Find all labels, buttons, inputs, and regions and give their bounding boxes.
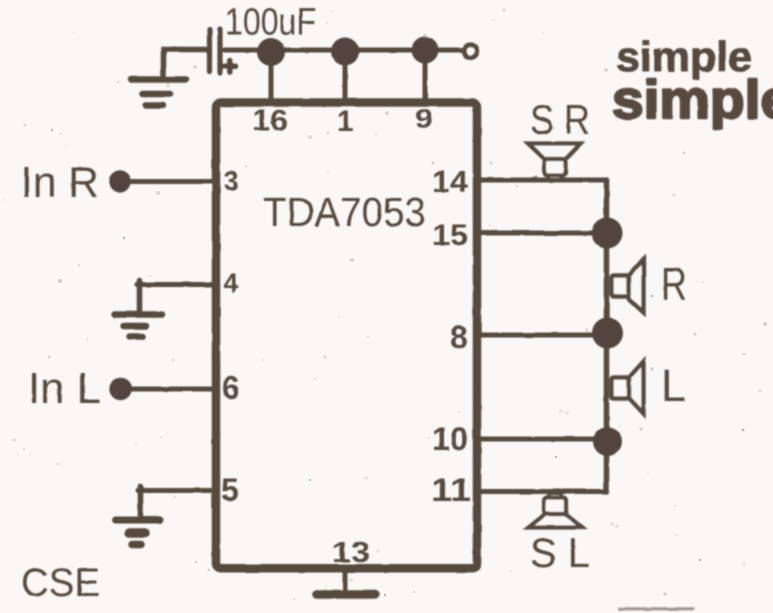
svg-text:15: 15 [432, 219, 468, 252]
svg-text:simple: simple [612, 70, 773, 130]
svg-text:In R: In R [21, 158, 99, 207]
svg-text:13: 13 [332, 537, 370, 569]
svg-text:TDA7053: TDA7053 [263, 189, 426, 235]
svg-text:6: 6 [222, 370, 240, 406]
svg-text:S R: S R [530, 96, 590, 143]
svg-text:14: 14 [432, 164, 469, 199]
svg-text:3: 3 [224, 166, 239, 196]
svg-text:16: 16 [252, 105, 288, 137]
svg-text:R: R [661, 258, 687, 310]
svg-text:100uF: 100uF [225, 2, 316, 44]
svg-text:9: 9 [415, 104, 433, 134]
svg-text:5: 5 [221, 472, 239, 508]
svg-text:1: 1 [337, 106, 353, 138]
svg-text:In L: In L [28, 364, 101, 413]
svg-text:10: 10 [432, 421, 468, 457]
svg-text:CSE: CSE [21, 561, 100, 605]
svg-text:S L: S L [530, 529, 590, 576]
svg-text:11: 11 [431, 472, 471, 508]
svg-text:8: 8 [450, 319, 468, 355]
svg-text:L: L [661, 360, 686, 411]
svg-text:4: 4 [224, 268, 239, 298]
